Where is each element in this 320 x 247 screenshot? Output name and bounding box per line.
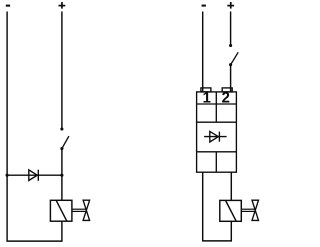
wire: right positive lead to switch bbox=[230, 12, 232, 46]
valve flow symbol (left circuit) bbox=[83, 200, 90, 220]
wire: left negative rail down, bottom run, up to coil bottom bbox=[7, 12, 62, 242]
terminal label minus (left circuit) bbox=[6, 5, 10, 7]
wire: diode branch (left circuit) bbox=[7, 174, 62, 176]
valve actuator link (right circuit) bbox=[241, 209, 255, 211]
valve flow symbol (right circuit) bbox=[252, 200, 259, 220]
terminal label plus (left circuit) bbox=[59, 2, 66, 9]
pin label 1 bbox=[204, 92, 211, 102]
node: junction on positive rail bbox=[60, 174, 63, 177]
wire: switch to coil (left circuit) bbox=[61, 149, 63, 201]
switch S2 (right circuit) bbox=[229, 44, 238, 66]
terminal label plus (right circuit) bbox=[227, 2, 234, 9]
terminal label minus (right circuit) bbox=[202, 5, 206, 7]
plug terminal tab 2 bbox=[222, 88, 232, 92]
plug terminal tab 1 bbox=[201, 88, 211, 92]
switch S1 (left circuit) bbox=[60, 127, 69, 150]
wire: right negative lead to plug bbox=[202, 12, 204, 92]
connector plug body U1 bbox=[197, 92, 237, 172]
wire: switch to plug (right circuit) bbox=[230, 65, 232, 92]
solenoid coil Y2 (right circuit) bbox=[220, 200, 242, 221]
diode D1 (left circuit) bbox=[29, 170, 39, 181]
node: junction on negative rail bbox=[6, 174, 9, 177]
valve actuator link (left circuit) bbox=[72, 209, 86, 211]
solenoid coil Y1 (left circuit) bbox=[50, 200, 72, 221]
valve body outline (right circuit) bbox=[203, 172, 232, 241]
wire: left positive rail from top to switch bbox=[61, 12, 63, 130]
diode D2 (inside plug) bbox=[204, 131, 227, 142]
pin label 2 bbox=[222, 92, 229, 102]
